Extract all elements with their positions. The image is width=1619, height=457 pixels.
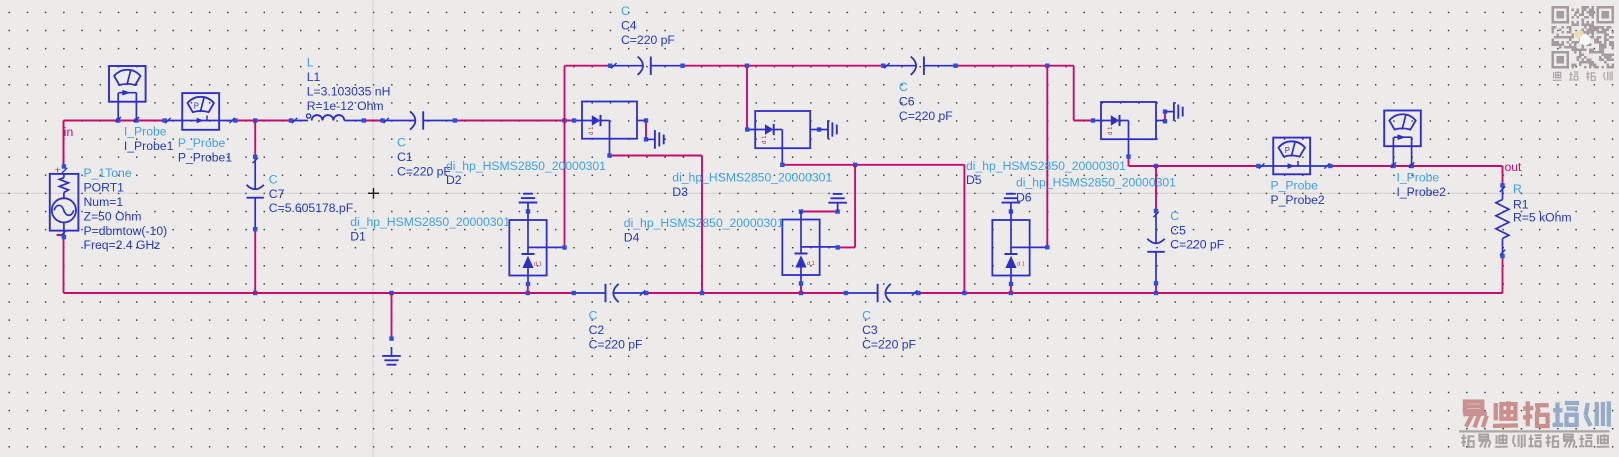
probe I_Probe2 bbox=[1384, 111, 1421, 169]
wire R1 to rail bbox=[1502, 256, 1504, 293]
svg-text:C3: C3 bbox=[862, 323, 878, 337]
source PORT1 labels bbox=[84, 166, 168, 252]
wire I_Probe2 to out corner bbox=[1412, 166, 1503, 185]
svg-text:D1: D1 bbox=[350, 230, 366, 244]
svg-text:d 1: d 1 bbox=[762, 135, 768, 144]
svg-text:I_Probe2: I_Probe2 bbox=[1397, 185, 1447, 199]
svg-text:C=220 pF: C=220 pF bbox=[862, 337, 916, 351]
svg-text:C=220 pF: C=220 pF bbox=[397, 164, 451, 178]
wire in-corner to I_Probe1 bbox=[64, 121, 119, 167]
wire D5 out to P_Probe2 bbox=[1129, 157, 1259, 166]
wire D3 out run bbox=[782, 164, 964, 166]
probe I_Probe1 bbox=[109, 66, 146, 123]
wire D4 right link bbox=[838, 165, 855, 248]
diode D2 labels bbox=[446, 159, 606, 187]
svg-text:d 1: d 1 bbox=[534, 261, 542, 267]
capacitor C1 bbox=[380, 111, 457, 129]
diode D1 pin node bbox=[562, 245, 566, 249]
junction main-topladder x564 bbox=[562, 118, 566, 122]
wire C7 riser bbox=[254, 121, 256, 157]
wire port bottom to rail bbox=[63, 237, 65, 293]
svg-text:di_hp_HSMS2850_20000301: di_hp_HSMS2850_20000301 bbox=[446, 159, 606, 173]
wire P_Probe2 to I_Probe2 bbox=[1330, 165, 1393, 167]
capacitor C3 bbox=[844, 284, 921, 302]
capacitor C6 bbox=[881, 57, 958, 75]
diode D3 labels bbox=[672, 171, 832, 199]
svg-text:di_hp_HSMS2850_20000301: di_hp_HSMS2850_20000301 bbox=[624, 216, 784, 230]
diode D4 bbox=[782, 211, 838, 286]
junction D4 bottom bbox=[799, 291, 803, 295]
svg-text:P_1Tone: P_1Tone bbox=[84, 166, 132, 180]
ground D2 cathode bbox=[644, 118, 664, 148]
probe P_Probe1 bbox=[162, 93, 237, 130]
svg-text:C5: C5 bbox=[1170, 223, 1186, 237]
svg-text:C: C bbox=[621, 4, 630, 18]
svg-text:C=220 pF: C=220 pF bbox=[621, 33, 675, 47]
svg-text:P=dbmtow(-10): P=dbmtow(-10) bbox=[84, 224, 168, 238]
capacitor C5 labels bbox=[1170, 209, 1224, 252]
svg-text:d 1: d 1 bbox=[589, 126, 595, 135]
wire ground drop bbox=[391, 293, 393, 339]
svg-text:P_Probe: P_Probe bbox=[178, 136, 226, 150]
svg-text:D5: D5 bbox=[966, 173, 982, 187]
junction C7 rail bbox=[253, 291, 257, 295]
svg-text:L: L bbox=[307, 56, 314, 70]
source P_1Tone PORT1 bbox=[50, 164, 79, 239]
svg-text:di_hp_HSMS2850_20000301: di_hp_HSMS2850_20000301 bbox=[966, 159, 1126, 173]
svg-text:Num=1: Num=1 bbox=[84, 195, 124, 209]
wire D6 riser bbox=[1046, 66, 1048, 248]
svg-text:P_Probe2: P_Probe2 bbox=[1271, 193, 1325, 207]
svg-text:D2: D2 bbox=[446, 173, 462, 187]
svg-text:L1: L1 bbox=[307, 70, 321, 84]
svg-text:R=5 kOhm: R=5 kOhm bbox=[1513, 211, 1572, 225]
resistor R1 bbox=[1496, 183, 1509, 258]
resistor R1 labels bbox=[1513, 182, 1572, 225]
wire P_Probe1 to L1 bbox=[235, 120, 291, 122]
ground D4 top bbox=[799, 194, 847, 214]
grid major line horizontal bbox=[0, 192, 1619, 194]
probe I_Probe1 labels bbox=[124, 125, 174, 153]
probe P_Probe2 bbox=[1256, 138, 1332, 175]
grid major line vertical bbox=[372, 0, 374, 457]
capacitor C2 bbox=[572, 284, 649, 302]
diode D4 labels bbox=[624, 216, 784, 244]
diode D1 bbox=[509, 212, 565, 287]
wire D3 riser bbox=[746, 66, 748, 130]
probe P_Probe1 labels bbox=[178, 136, 232, 164]
wire bottom rail seg3 bbox=[918, 292, 1502, 294]
svg-text:+: + bbox=[55, 165, 61, 177]
wire C6 to D5 corner bbox=[956, 66, 1093, 121]
wire bottom rail seg1 bbox=[64, 292, 574, 294]
svg-text:P_Probe1: P_Probe1 bbox=[178, 151, 232, 165]
diode D4 pin node bbox=[836, 245, 840, 249]
svg-text:di_hp_HSMS2850_20000301: di_hp_HSMS2850_20000301 bbox=[1016, 176, 1176, 190]
svg-text:in: in bbox=[64, 125, 74, 139]
watermark contact text bbox=[1553, 71, 1612, 80]
svg-text:C: C bbox=[589, 309, 598, 323]
svg-text:Z=50 Ohm: Z=50 Ohm bbox=[84, 209, 142, 223]
svg-text:C4: C4 bbox=[621, 19, 637, 33]
probe I_Probe2 labels bbox=[1397, 171, 1447, 199]
svg-text:C1: C1 bbox=[397, 150, 413, 164]
capacitor C1 labels bbox=[397, 136, 451, 179]
svg-text:P: P bbox=[1285, 146, 1290, 155]
diode D6 pin node bbox=[1045, 245, 1049, 249]
diode D3 bbox=[745, 111, 819, 167]
capacitor C6 labels bbox=[899, 80, 953, 123]
origin cross marker bbox=[368, 188, 379, 199]
diode D5 bbox=[1091, 102, 1165, 159]
junction top rail D3 tap bbox=[745, 64, 749, 68]
wire top rail left segment bbox=[565, 65, 611, 67]
wire D6 bottom drop bbox=[1010, 281, 1012, 293]
watermark QR code bbox=[1552, 6, 1615, 69]
wire C7 to rail bbox=[254, 229, 256, 293]
svg-text:C=220 pF: C=220 pF bbox=[899, 109, 953, 123]
svg-text:D6: D6 bbox=[1016, 190, 1032, 204]
junction D3out rail bbox=[962, 291, 966, 295]
svg-text:C: C bbox=[269, 172, 278, 186]
svg-text:L=3.103035 nH: L=3.103035 nH bbox=[307, 85, 391, 99]
capacitor C7 labels bbox=[269, 172, 353, 215]
svg-text:C: C bbox=[862, 309, 871, 323]
wire D1 bottom drop bbox=[527, 284, 529, 293]
ground D1 anode-top bbox=[519, 194, 538, 214]
svg-text:C=220 pF: C=220 pF bbox=[589, 337, 643, 351]
watermark logo text bbox=[1459, 401, 1610, 447]
svg-text:d 1: d 1 bbox=[1108, 126, 1114, 135]
wire port top bbox=[63, 121, 65, 167]
inductor L1 bbox=[289, 114, 366, 123]
wire C5 to rail bbox=[1155, 283, 1157, 293]
svg-text:R=1e-12 Ohm: R=1e-12 Ohm bbox=[307, 99, 384, 113]
junction D6 bottom bbox=[1009, 291, 1013, 295]
inductor L1 labels bbox=[307, 56, 391, 113]
svg-text:D4: D4 bbox=[624, 230, 640, 244]
svg-text:C2: C2 bbox=[589, 323, 605, 337]
wire C5 riser bbox=[1155, 166, 1157, 211]
svg-text:C7: C7 bbox=[269, 187, 285, 201]
wire D4 top link bbox=[801, 211, 838, 213]
ground D3 cathode bbox=[817, 120, 837, 139]
wire C4 to C6 segment bbox=[683, 65, 884, 67]
junction ground tap bbox=[389, 291, 393, 295]
svg-text:R1: R1 bbox=[1513, 197, 1529, 211]
capacitor C5 bbox=[1147, 209, 1164, 286]
svg-text:C6: C6 bbox=[899, 95, 915, 109]
svg-text:C: C bbox=[397, 136, 406, 150]
svg-text:I_Probe: I_Probe bbox=[124, 125, 167, 139]
wire L1 to C1 bbox=[364, 120, 383, 122]
capacitor C3 labels bbox=[862, 309, 916, 352]
probe P_Probe2 labels bbox=[1271, 179, 1325, 207]
svg-text:Freq=2.4 GHz: Freq=2.4 GHz bbox=[84, 238, 161, 252]
capacitor C7 bbox=[247, 155, 264, 232]
junction D2out rail bbox=[700, 291, 704, 295]
capacitor C2 labels bbox=[589, 309, 643, 352]
wire vertical C4/D1 riser bbox=[564, 66, 566, 248]
junction C5 rail bbox=[1154, 291, 1158, 295]
svg-text:I_Probe: I_Probe bbox=[1397, 171, 1440, 185]
svg-text:R: R bbox=[1513, 182, 1522, 196]
diode D5 labels bbox=[966, 159, 1126, 187]
svg-text:P_Probe: P_Probe bbox=[1271, 179, 1319, 193]
wire D3out to rail drop bbox=[963, 165, 965, 293]
svg-text:D3: D3 bbox=[672, 185, 688, 199]
node out label bbox=[1505, 160, 1523, 174]
junction D1 bottom bbox=[526, 291, 530, 295]
svg-text:P: P bbox=[194, 101, 199, 110]
capacitor C4 labels bbox=[621, 4, 675, 47]
svg-text:C=220 pF: C=220 pF bbox=[1170, 238, 1224, 252]
wire C1 to D2 bbox=[454, 120, 574, 122]
ground D6 top bbox=[1002, 194, 1021, 214]
wire junction C7 tap bbox=[253, 118, 257, 122]
diode D2 bbox=[572, 102, 646, 158]
junction top rail D6 tap bbox=[1045, 64, 1049, 68]
wire bottom rail seg2 bbox=[646, 292, 846, 294]
svg-text:C: C bbox=[1170, 209, 1179, 223]
svg-text:C: C bbox=[899, 80, 908, 94]
wire D2 out to rail bbox=[610, 156, 703, 294]
wire I_Probe1 legs span bbox=[118, 120, 164, 122]
wire D4 bottom drop bbox=[800, 284, 802, 293]
svg-text:di_hp_HSMS2850_20000301: di_hp_HSMS2850_20000301 bbox=[350, 215, 510, 229]
svg-text:d 1: d 1 bbox=[1017, 261, 1025, 267]
junction C5 tap bbox=[1154, 164, 1158, 168]
svg-text:I_Probe1: I_Probe1 bbox=[124, 139, 174, 153]
ground D5 cathode bbox=[1163, 102, 1183, 123]
node in label bbox=[64, 125, 74, 139]
svg-text:PORT1: PORT1 bbox=[84, 181, 125, 195]
svg-text:C=5.605178 pF: C=5.605178 pF bbox=[269, 201, 353, 215]
diode D6 bbox=[992, 212, 1048, 287]
svg-text:di_hp_HSMS2850_20000301: di_hp_HSMS2850_20000301 bbox=[672, 171, 832, 185]
svg-text:d 1: d 1 bbox=[807, 261, 815, 267]
wire I_Probe2 legs span bbox=[1393, 165, 1411, 167]
junction D4 tap bbox=[853, 163, 857, 167]
diode D6 labels bbox=[1016, 176, 1176, 205]
diode D1 labels bbox=[350, 215, 510, 243]
svg-text:out: out bbox=[1505, 160, 1523, 174]
capacitor C4 bbox=[608, 57, 685, 75]
ground bottom rail bbox=[382, 336, 401, 364]
